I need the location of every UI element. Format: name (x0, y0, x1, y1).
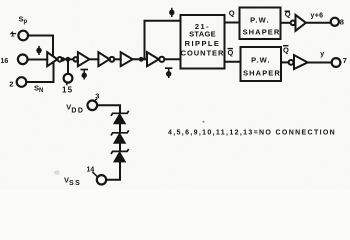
svg-text:4,5,6,9,10,11,12,13=NO CONNECT: 4,5,6,9,10,11,12,13=NO CONNECTION (168, 130, 336, 137)
wire diode D1 to D2 (119, 124, 121, 133)
wire U5 out to counter (164, 58, 180, 60)
21-stage ripple counter block (181, 15, 225, 69)
pin 3 terminal (88, 101, 98, 111)
wire pin1 to gate top (28, 36, 53, 57)
wire shaper2 to buffer2 (281, 61, 289, 63)
inverter U4 (121, 52, 133, 66)
wire buffer to pin8 (306, 22, 331, 24)
svg-text:P.W.: P.W. (250, 16, 270, 25)
svg-text:15: 15 (62, 85, 73, 94)
svg-text:y: y (320, 51, 324, 58)
svg-text:Q: Q (228, 48, 234, 57)
pin 1 stub (11, 33, 16, 35)
pin 3 leader tick (94, 99, 96, 101)
pin 2 terminal (17, 77, 27, 87)
svg-text:COUNTER: COUNTER (181, 49, 225, 58)
wire pin2 to gate bottom (26, 63, 53, 82)
svg-text:1: 1 (11, 32, 15, 39)
P.W. shaper block 2 (241, 47, 282, 81)
protection diode D3 (111, 149, 129, 162)
svg-text:SHAPER: SHAPER (243, 69, 281, 78)
protection diode D1 (111, 111, 129, 124)
wire pin16 to gate (28, 59, 48, 61)
svg-text:2: 2 (9, 80, 13, 89)
svg-text:8: 8 (340, 18, 344, 27)
wire Q counter to shaper (225, 22, 240, 24)
speck near phi-bar (80, 64, 82, 66)
svg-text:14: 14 (87, 166, 95, 173)
wire pin3 to diode chain (97, 105, 120, 113)
pin 15 terminal (64, 74, 73, 83)
wire buffer2 to pin7 (308, 62, 332, 64)
paper background (0, 0, 350, 189)
input gate U1 (47, 52, 62, 66)
svg-text:RIPPLE: RIPPLE (185, 39, 221, 48)
inverter U2 (73, 52, 89, 66)
pin 16 terminal (18, 55, 28, 65)
node junction dot A (61, 57, 65, 61)
wire diode D2 to D3 (119, 143, 121, 151)
label Q-bar bottom left (228, 48, 234, 57)
phi-bar symbol near U2 (81, 70, 89, 80)
speck above note text (203, 121, 205, 123)
wire U4 to U5 (133, 58, 147, 60)
protection diode D2 (111, 130, 129, 143)
phi symbol at counter clock (169, 8, 174, 17)
phi-bar symbol near counter (165, 68, 172, 78)
label Q-bar bottom right (283, 45, 289, 54)
wire pin15 up (67, 59, 69, 74)
pin 8 terminal (331, 18, 339, 26)
node junction dot B (139, 57, 144, 62)
pin 7 terminal (332, 58, 341, 67)
inverter U3 (98, 52, 114, 66)
svg-text:STAGE: STAGE (189, 30, 216, 39)
svg-text:Q: Q (229, 9, 235, 18)
output buffer U6 (291, 15, 306, 31)
node junction dot pin15 (66, 57, 71, 62)
pin 15 leader tick (66, 83, 68, 85)
svg-text:7: 7 (343, 56, 347, 65)
wire phi rail up and to counter (145, 21, 181, 60)
wire Qbar counter to shaper2 (225, 61, 241, 63)
inverter U5 (147, 52, 164, 66)
svg-text:y+6: y+6 (311, 13, 324, 20)
pin 14 leader tick (93, 172, 97, 176)
svg-text:3: 3 (95, 92, 99, 101)
pin 1 terminal (18, 31, 28, 41)
wire gate U1 out to U2 (62, 58, 73, 60)
phi symbol at input (36, 46, 41, 55)
output buffer U7 (289, 55, 308, 69)
wire U3 out to U4 (114, 58, 120, 60)
wire diode D3 to pin14 (106, 162, 120, 180)
smudge at left edge (54, 170, 60, 174)
svg-text:SHAPER: SHAPER (243, 27, 281, 36)
svg-text:Q: Q (283, 45, 289, 54)
svg-text:P.W.: P.W. (251, 55, 271, 64)
label Q-bar top right (285, 9, 291, 18)
svg-text:16: 16 (1, 58, 9, 65)
wire U2 to U3 (89, 58, 98, 60)
wire shaper1 to buffer (281, 22, 291, 24)
pin 14 terminal (97, 175, 106, 184)
P.W. shaper block 1 (240, 8, 281, 40)
